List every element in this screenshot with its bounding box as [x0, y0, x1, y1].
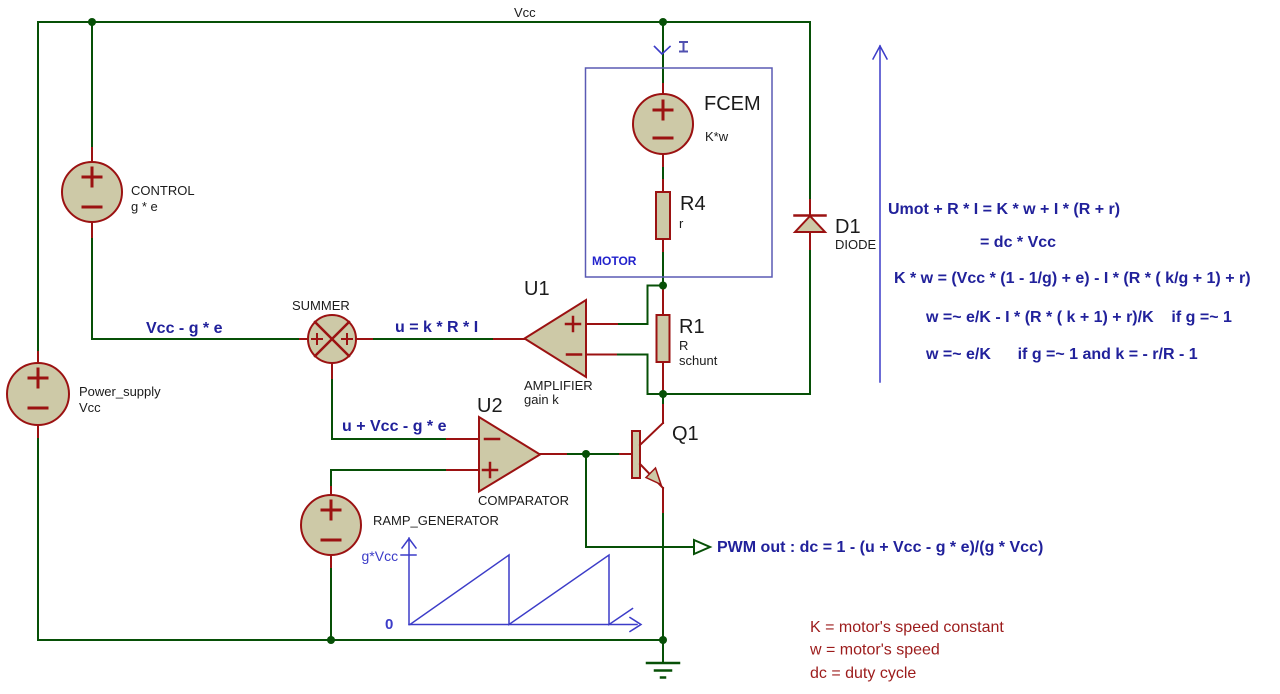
- pin D1 cathode: [809, 200, 811, 216]
- pin summer bottom: [331, 363, 333, 378]
- svg-text:Umot + R * I = K * w + I * (R: Umot + R * I = K * w + I * (R + r): [888, 201, 1120, 218]
- wire U1 minus hook to node B: [616, 355, 663, 395]
- diode D1: [795, 216, 826, 233]
- wire summer to U1 output: [372, 338, 494, 340]
- node junction at motor/Vcc: [659, 18, 667, 26]
- wire FCEM to R4: [662, 166, 664, 180]
- svg-text:u = k * R * I: u = k * R * I: [395, 319, 478, 336]
- pin FCEM bottom: [662, 154, 664, 166]
- wire node B to Q1 collector: [662, 394, 664, 405]
- ramp generator source circle: [301, 495, 361, 555]
- svg-text:Q1: Q1: [672, 423, 699, 445]
- node junction emitter/ground rail: [659, 636, 667, 644]
- pin D1 anode: [809, 232, 811, 249]
- svg-text:w =~ e/K - I * (R * ( k + 1) +: w =~ e/K - I * (R * ( k + 1) + r)/K if g…: [925, 309, 1232, 326]
- svg-text:g*Vcc: g*Vcc: [362, 548, 399, 564]
- FCEM source circle: [633, 94, 693, 154]
- wire ramp generator to ground rail: [330, 567, 332, 640]
- wire control to summer: [92, 237, 300, 339]
- svg-text:DIODE: DIODE: [835, 237, 877, 252]
- svg-text:Vcc: Vcc: [79, 400, 101, 415]
- label I: [680, 42, 687, 52]
- pin R4 top: [662, 180, 664, 192]
- wire R4 to node A: [662, 251, 664, 286]
- pin summer left: [300, 338, 308, 340]
- pin Q1 collector riser: [662, 405, 664, 423]
- pin power supply top: [37, 352, 39, 363]
- node junction at control/Vcc: [88, 18, 96, 26]
- svg-text:AMPLIFIER: AMPLIFIER: [524, 378, 593, 393]
- svg-text:= dc * Vcc: = dc * Vcc: [980, 234, 1056, 251]
- svg-text:Power_supply: Power_supply: [79, 384, 161, 399]
- summer node circle: [308, 315, 356, 363]
- control source circle: [62, 162, 122, 222]
- pin FCEM top: [662, 84, 664, 94]
- pin ramp generator top: [330, 487, 332, 495]
- node B junction R1 bottom: [659, 390, 667, 398]
- svg-text:g * e: g * e: [131, 199, 158, 214]
- node A junction R1 top: [659, 282, 667, 290]
- PWM output arrow: [694, 540, 710, 554]
- wire diode bottom riser: [809, 249, 811, 394]
- svg-text:CONTROL: CONTROL: [131, 183, 195, 198]
- node junction U2 output: [582, 450, 590, 458]
- pin ramp generator bottom: [330, 555, 332, 567]
- wire bottom rail: [38, 639, 663, 641]
- wire Q1 emitter to ground rail: [662, 512, 664, 640]
- pin U2 output: [540, 453, 566, 455]
- wire node B to diode branch: [663, 393, 810, 395]
- pin control bottom: [91, 222, 93, 237]
- current arrow I: [655, 47, 671, 55]
- pin Q1 base: [620, 453, 632, 455]
- svg-text:schunt: schunt: [679, 353, 718, 368]
- power supply source circle: [7, 363, 69, 425]
- svg-text:R1: R1: [679, 316, 705, 338]
- svg-text:K = motor's speed constant: K = motor's speed constant: [810, 619, 1004, 636]
- svg-text:0: 0: [385, 616, 393, 633]
- pin U2 plus input: [447, 469, 479, 471]
- ground: [647, 640, 679, 678]
- wire Vcc top rail: [38, 21, 810, 23]
- svg-text:gain k: gain k: [524, 392, 559, 407]
- pin R1 top: [662, 286, 664, 316]
- pin R4 bottom: [662, 239, 664, 251]
- wire U2 output to Q1 base: [566, 453, 620, 455]
- svg-text:w =~ e/K if g =~ 1 and k: w =~ e/K if g =~ 1 and k = - r/R - 1: [925, 346, 1198, 363]
- svg-text:Vcc: Vcc: [514, 5, 536, 20]
- wire summer bottom to U2 minus: [332, 378, 447, 439]
- wire PWM branch: [586, 454, 694, 547]
- pin U1 minus input: [586, 354, 616, 356]
- pin Q1 emitter riser: [662, 488, 664, 512]
- svg-text:RAMP_GENERATOR: RAMP_GENERATOR: [373, 513, 499, 528]
- svg-text:R4: R4: [680, 193, 706, 215]
- MOTOR box: [586, 68, 773, 277]
- wire node A to U1 plus hook: [617, 286, 663, 325]
- svg-text:U2: U2: [477, 395, 503, 417]
- svg-text:K*w: K*w: [705, 129, 729, 144]
- svg-text:u + Vcc - g * e: u + Vcc - g * e: [342, 418, 447, 435]
- svg-text:U1: U1: [524, 278, 550, 300]
- svg-text:FCEM: FCEM: [704, 93, 761, 115]
- svg-text:Vcc - g * e: Vcc - g * e: [146, 320, 223, 337]
- wire U2 plus to ramp generator: [331, 470, 447, 487]
- transistor Q1: [632, 423, 663, 488]
- pin U1 output: [494, 338, 524, 340]
- wire Vcc to FCEM: [662, 22, 664, 84]
- svg-text:COMPARATOR: COMPARATOR: [478, 493, 569, 508]
- pin summer right: [356, 338, 372, 340]
- svg-text:K * w = (Vcc * (1 - 1/g) + e): K * w = (Vcc * (1 - 1/g) + e) - I * (R *…: [894, 270, 1251, 287]
- wire diode top to Vcc rail: [809, 22, 811, 200]
- svg-text:D1: D1: [835, 216, 861, 238]
- svg-text:R: R: [679, 338, 688, 353]
- equation arrow: [873, 46, 887, 382]
- svg-text:SUMMER: SUMMER: [292, 298, 350, 313]
- pin U1 plus input: [586, 323, 617, 325]
- ramp waveform sawtooth: [410, 555, 633, 625]
- wire control branch down: [91, 22, 93, 148]
- wire left rail lower: [37, 437, 39, 640]
- pin U2 minus input: [447, 438, 479, 440]
- node junction ramp/ground rail: [327, 636, 335, 644]
- svg-text:w = motor's speed: w = motor's speed: [809, 642, 940, 659]
- svg-text:PWM out : dc = 1 - (u + Vcc -: PWM out : dc = 1 - (u + Vcc - g * e)/(g …: [717, 539, 1043, 556]
- pin R1 bottom: [662, 362, 664, 394]
- pin power supply bottom: [37, 425, 39, 437]
- resistor R4: [656, 192, 670, 239]
- op-amp U2 comparator: [479, 417, 540, 492]
- op-amp U1 amplifier: [525, 300, 587, 377]
- svg-text:r: r: [679, 216, 684, 231]
- wire left rail upper: [37, 22, 39, 352]
- pin control top: [91, 148, 93, 162]
- svg-text:dc = duty cycle: dc = duty cycle: [810, 665, 916, 682]
- svg-text:MOTOR: MOTOR: [592, 254, 637, 268]
- resistor R1: [657, 315, 670, 362]
- ramp waveform axes: [401, 538, 641, 632]
